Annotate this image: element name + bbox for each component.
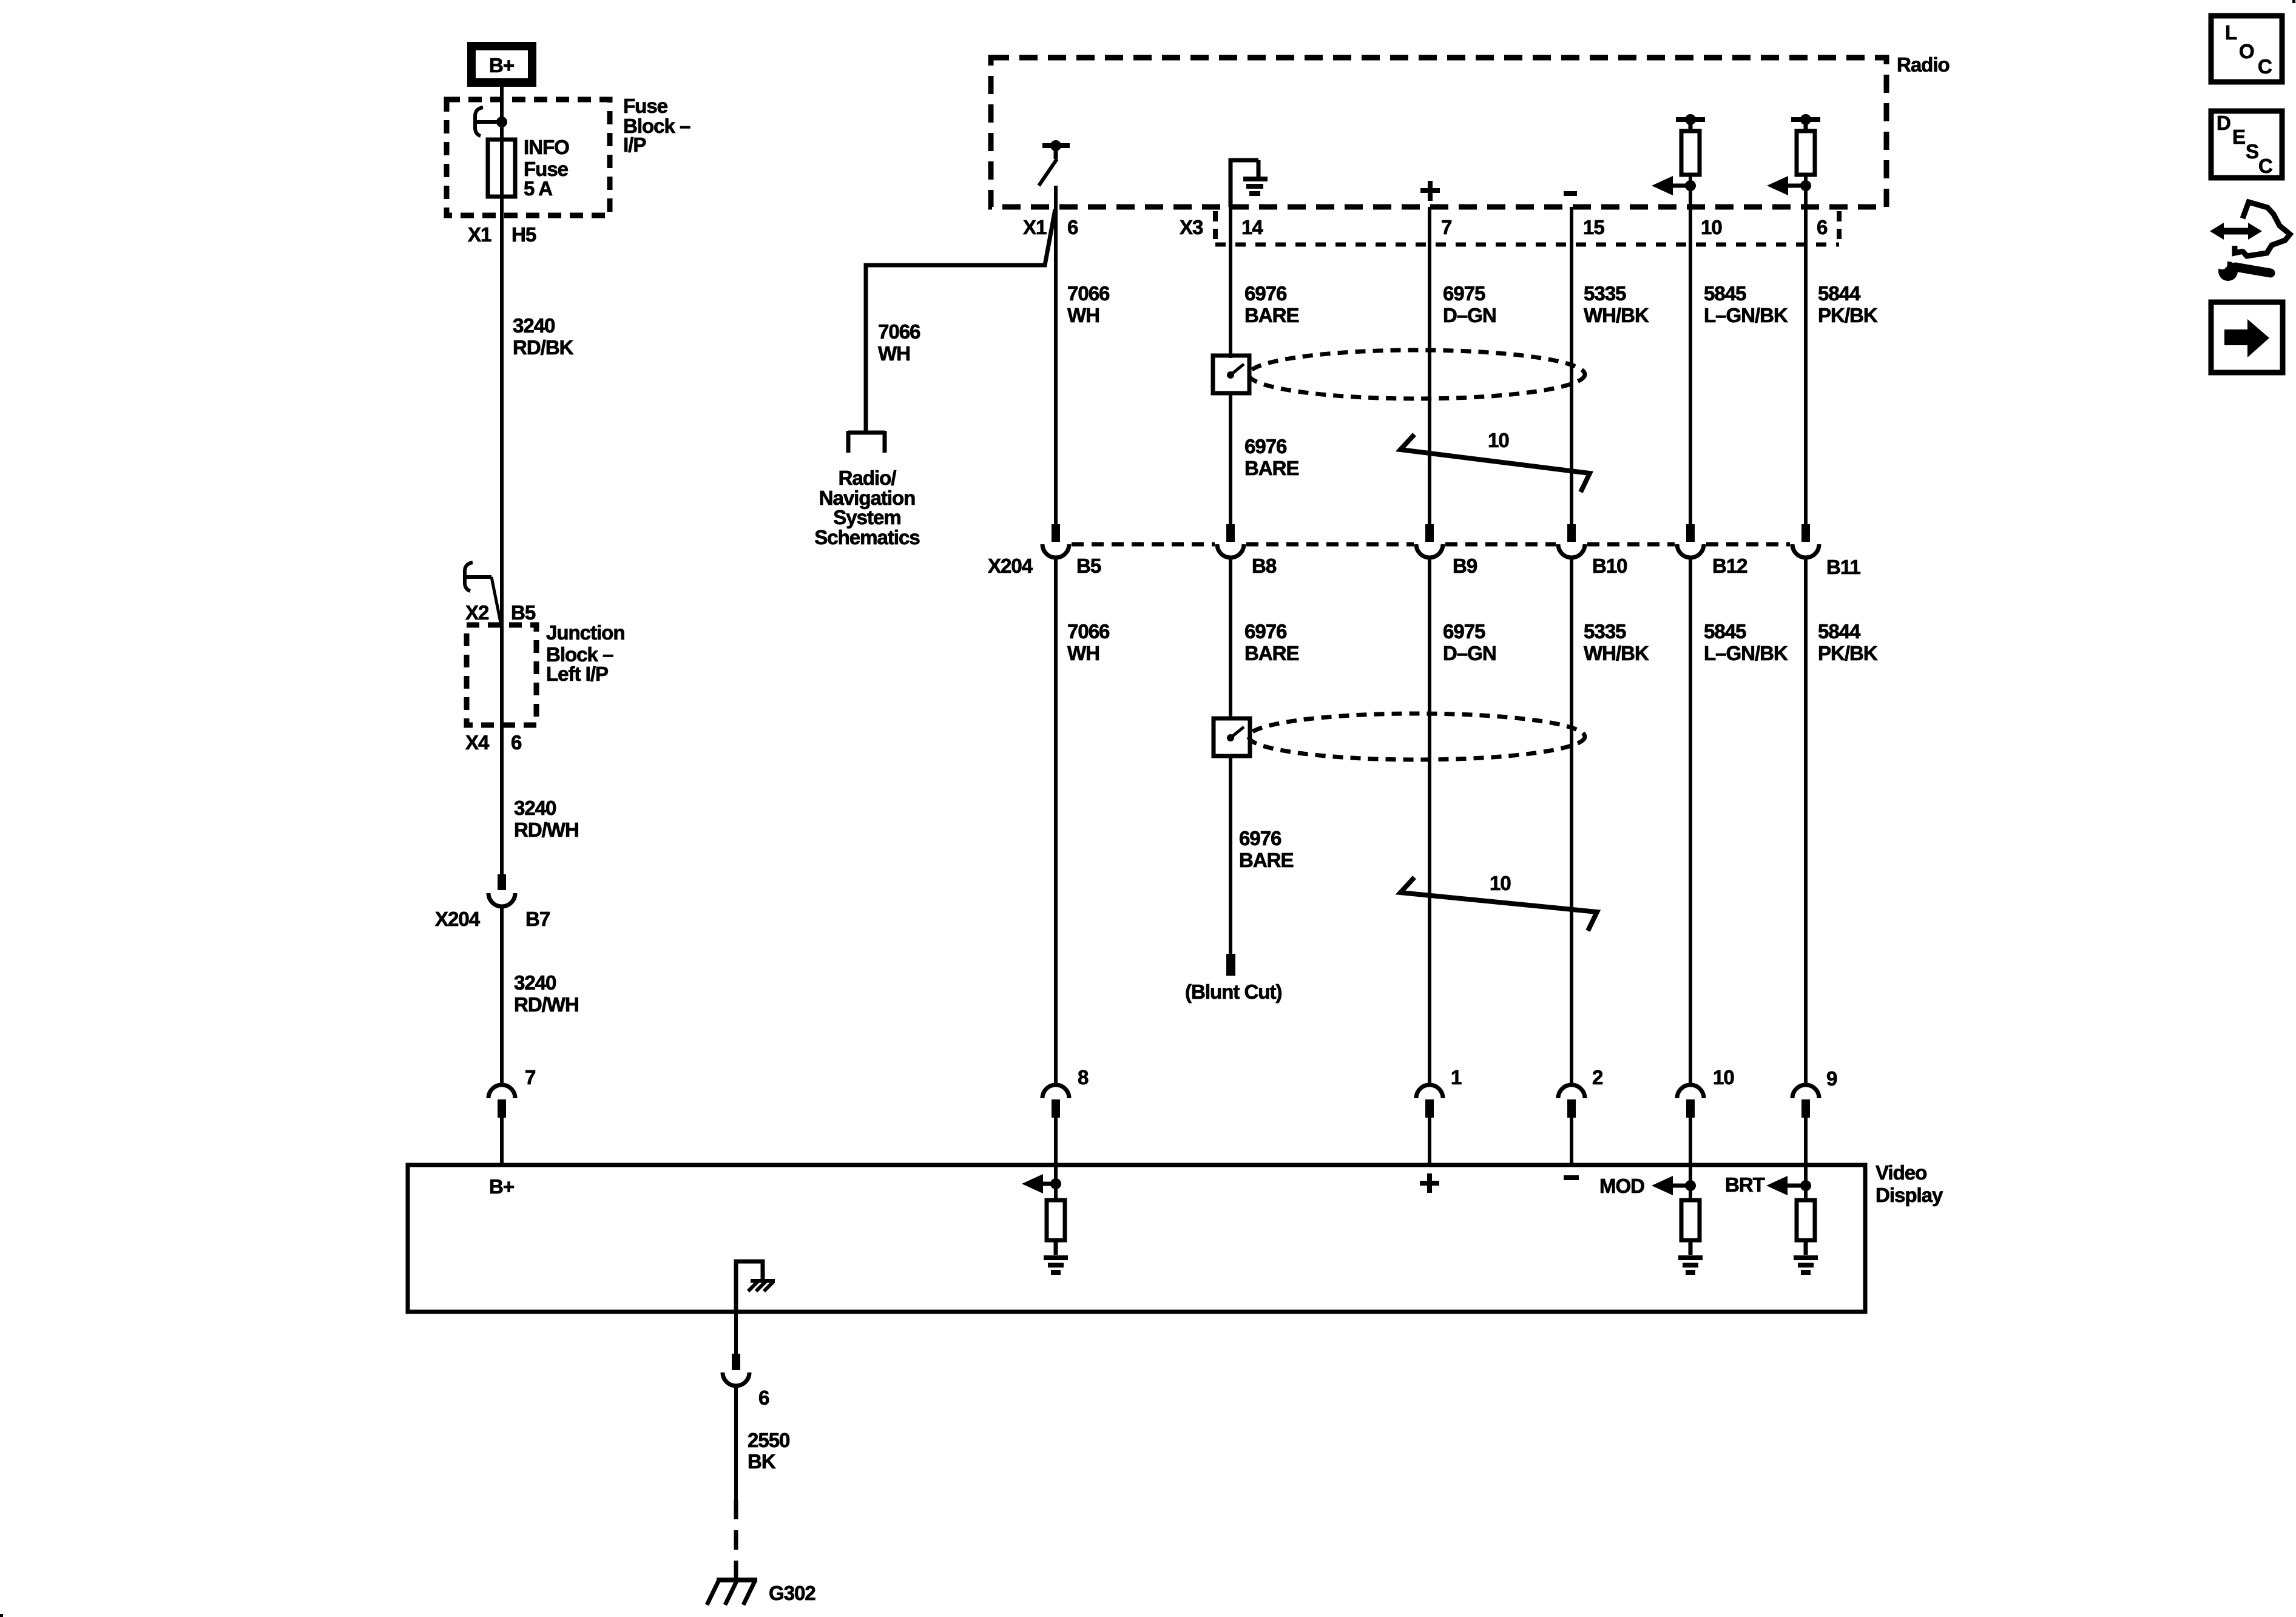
wire through fuse [500, 122, 504, 238]
svg-text:6975: 6975 [1443, 620, 1485, 643]
svg-text:6: 6 [758, 1386, 769, 1409]
svg-text:2: 2 [1592, 1066, 1603, 1089]
svg-text:15: 15 [1583, 216, 1604, 238]
wire col4 into display [1570, 1118, 1573, 1165]
svg-text:B9: B9 [1453, 555, 1477, 577]
wire col3 radio to X204 [1428, 207, 1431, 524]
off-page reference bracket [848, 431, 885, 453]
wire labels row B [1067, 620, 1878, 664]
svg-text:B7: B7 [525, 908, 550, 930]
svg-text:X204: X204 [435, 908, 481, 930]
earth ground col5 [1678, 1258, 1703, 1272]
display minus col4 [1564, 1175, 1579, 1180]
svg-text:Schematics: Schematics [814, 526, 919, 549]
svg-text:X204: X204 [988, 555, 1033, 577]
svg-text:E: E [2232, 126, 2245, 148]
display connector male pin col L [498, 1099, 506, 1118]
wire 5844 PK/BK col6 X204 to display [1804, 557, 1808, 1085]
label 7066 WH elbow [878, 320, 920, 365]
icon DESC box [2211, 111, 2282, 178]
svg-text:B10: B10 [1592, 555, 1627, 577]
svg-text:B12: B12 [1712, 555, 1747, 577]
svg-text:L–GN/BK: L–GN/BK [1704, 642, 1788, 664]
junction block dashed box [467, 625, 536, 725]
connector X204 B7 male pin [498, 874, 506, 890]
junction dot at clip [496, 116, 507, 127]
radio resistor col6 top bar [1791, 114, 1820, 131]
display connector cap col4 [1558, 1085, 1585, 1098]
wire 3240 RD/WH upper [514, 797, 579, 841]
svg-text:(Blunt Cut): (Blunt Cut) [1185, 981, 1281, 1003]
wire 5845 L-GN/BK col5 X204 to display [1689, 557, 1692, 1085]
X204 cup col1 [1042, 544, 1069, 558]
wire 3240 RD/WH lower [500, 905, 504, 1086]
svg-text:D: D [2217, 112, 2230, 134]
svg-text:6976: 6976 [1244, 620, 1287, 643]
X204 cup col3 [1416, 544, 1443, 558]
wire 2550 BK [734, 1385, 738, 1500]
X3 connector strip left bracket [1213, 211, 1218, 245]
svg-text:I/P: I/P [623, 133, 646, 156]
fuse block dashed box [447, 100, 610, 215]
svg-text:5 A: 5 A [524, 177, 552, 200]
wire col5 into display [1689, 1118, 1692, 1200]
wire col3 into display [1428, 1118, 1431, 1165]
wire 7066 WH col1 X204 to display [1054, 557, 1058, 1085]
svg-text:10: 10 [1713, 1066, 1734, 1089]
svg-text:10: 10 [1701, 216, 1722, 238]
ground G302 symbol [707, 1580, 757, 1605]
wire col2 splice to blunt cut [1229, 756, 1232, 954]
svg-text:Video: Video [1876, 1161, 1926, 1184]
wire display to G302 connector [734, 1311, 738, 1354]
display connector row labels [1078, 1066, 1837, 1090]
label MOD with arrow [1599, 1175, 1696, 1197]
display resistor col1 [1047, 1200, 1065, 1240]
wire col4 radio to X204 [1570, 207, 1573, 524]
svg-text:RD/BK: RD/BK [513, 336, 574, 359]
label Fuse Block - I/P [623, 95, 690, 156]
X204 male pin col6 [1801, 524, 1810, 542]
svg-text:5844: 5844 [1818, 620, 1861, 643]
wire col1 into display [1054, 1118, 1058, 1200]
svg-text:O: O [2239, 40, 2254, 62]
svg-text:3240: 3240 [514, 971, 556, 994]
display resistor col1 ground stub [1054, 1240, 1058, 1255]
wire labels row A [1067, 282, 1878, 326]
svg-text:14: 14 [1241, 216, 1263, 238]
wire col1 radio to X204 [1054, 186, 1058, 524]
svg-text:3240: 3240 [513, 314, 555, 337]
svg-text:C: C [2258, 155, 2272, 177]
wire 6976 BARE col2 X204 to splice [1229, 557, 1232, 718]
svg-text:6976: 6976 [1244, 282, 1287, 305]
display connector cap col6 [1792, 1085, 1819, 1098]
earth ground col1 [1044, 1258, 1068, 1272]
svg-text:6975: 6975 [1443, 282, 1485, 305]
svg-text:6: 6 [1817, 216, 1828, 238]
icon wrench with arrows [2210, 202, 2290, 281]
svg-text:B+: B+ [489, 54, 514, 76]
X3 connector strip bottom line [1215, 243, 1839, 247]
B+ power feed box [471, 46, 532, 83]
svg-text:WH: WH [878, 342, 910, 365]
svg-text:B8: B8 [1252, 555, 1277, 577]
svg-text:5845: 5845 [1704, 620, 1746, 643]
display connector cap col5 [1677, 1085, 1704, 1098]
shield ellipse 2 [1249, 714, 1585, 760]
label Video Display [1876, 1161, 1943, 1206]
display male pin col1 [1052, 1099, 1060, 1118]
X204 cup col2 [1217, 544, 1244, 558]
G302 connector female cup [723, 1372, 749, 1386]
display resistor col5 ground stub [1689, 1240, 1693, 1255]
label 6976 BARE mid [1244, 435, 1299, 479]
wire into display col L [500, 1118, 504, 1165]
svg-text:H5: H5 [512, 223, 536, 246]
svg-text:D–GN: D–GN [1443, 304, 1496, 326]
svg-text:6976: 6976 [1244, 435, 1287, 457]
dashed wire to ground [734, 1500, 738, 1581]
svg-text:1: 1 [1451, 1066, 1462, 1089]
svg-text:7066: 7066 [1067, 620, 1110, 643]
svg-text:7: 7 [525, 1066, 535, 1089]
svg-text:BRT: BRT [1725, 1173, 1765, 1196]
svg-text:7066: 7066 [878, 320, 920, 343]
display resistor col5 [1681, 1200, 1700, 1240]
radio dashed box [991, 58, 1886, 207]
svg-text:S: S [2246, 140, 2258, 163]
harness crossing 10 upper [1400, 429, 1590, 492]
svg-text:WH/BK: WH/BK [1584, 304, 1649, 326]
X204 male pin col4 [1567, 524, 1576, 542]
X204 cup col5 [1677, 544, 1704, 558]
svg-text:3240: 3240 [514, 797, 556, 819]
svg-text:5335: 5335 [1584, 282, 1626, 305]
junction block clip symbol [465, 562, 491, 591]
svg-text:9: 9 [1826, 1067, 1837, 1090]
svg-text:G302: G302 [769, 1582, 815, 1604]
svg-text:X4: X4 [465, 731, 490, 754]
svg-text:6976: 6976 [1239, 827, 1281, 849]
display chassis ground elbow [736, 1261, 763, 1311]
radio switch col1 [1039, 140, 1070, 186]
wire through junction block [500, 574, 504, 874]
icon LOC box [2211, 16, 2282, 82]
corner mark top right [2292, 0, 2295, 3]
svg-text:BARE: BARE [1244, 642, 1299, 664]
svg-text:MOD: MOD [1599, 1175, 1644, 1197]
fuse block clip symbol [475, 107, 499, 136]
harness crossing 10 lower [1400, 872, 1597, 931]
label Junction Block - Left I/P [546, 621, 625, 685]
radio output arrow col6 [1767, 176, 1811, 195]
radio resistor col6 [1797, 131, 1815, 175]
display chassis ground symbol [748, 1281, 775, 1291]
svg-text:B5: B5 [511, 601, 536, 624]
radio pin labels [1023, 216, 1828, 238]
corner mark bottom left [0, 1614, 3, 1617]
svg-text:L: L [2225, 21, 2237, 44]
svg-text:X3: X3 [1180, 216, 1203, 238]
display male pin col5 [1686, 1099, 1695, 1118]
X204 row labels [988, 555, 1860, 578]
blunt cut pin [1226, 954, 1235, 976]
G302 connector male pin [732, 1354, 740, 1370]
wire col2 splice to X204 [1229, 393, 1232, 524]
display male pin col6 [1801, 1099, 1810, 1118]
X204 cup col4 [1558, 544, 1585, 558]
svg-text:10: 10 [1490, 872, 1511, 894]
svg-text:C: C [2258, 55, 2272, 78]
svg-text:6: 6 [1067, 216, 1078, 238]
svg-text:B5: B5 [1076, 555, 1101, 577]
svg-text:10: 10 [1488, 429, 1509, 451]
display connector cap col1 [1042, 1085, 1069, 1098]
svg-text:7066: 7066 [1067, 282, 1110, 305]
svg-text:Left I/P: Left I/P [546, 663, 608, 685]
svg-text:X2: X2 [465, 601, 489, 624]
svg-text:5844: 5844 [1818, 282, 1861, 305]
X204 male pin col3 [1425, 524, 1434, 542]
label 6976 BARE lower [1239, 827, 1294, 871]
svg-text:Junction: Junction [546, 621, 625, 644]
display male pin col4 [1567, 1099, 1576, 1118]
svg-text:L–GN/BK: L–GN/BK [1704, 304, 1788, 326]
X204 male pin col1 [1052, 524, 1060, 542]
svg-text:PK/BK: PK/BK [1818, 304, 1878, 326]
X204 male pin col5 [1686, 524, 1695, 542]
wire col6 radio to X204 [1804, 175, 1808, 524]
display connector cap col L [488, 1085, 515, 1098]
earth ground col6 [1794, 1258, 1818, 1272]
display male pin col3 [1425, 1099, 1434, 1118]
radio minus col4 [1564, 191, 1577, 196]
svg-text:Radio/: Radio/ [839, 467, 897, 489]
shield splice square 1 [1213, 356, 1249, 393]
clip diagonal into connector [491, 577, 501, 626]
svg-text:D–GN: D–GN [1443, 642, 1496, 664]
svg-text:B+: B+ [489, 1175, 514, 1198]
label BRT with arrow [1725, 1173, 1811, 1196]
X204 connector row dashed line [1072, 542, 1790, 547]
display resistor col6 [1797, 1200, 1815, 1240]
svg-text:BARE: BARE [1239, 849, 1294, 871]
svg-text:PK/BK: PK/BK [1818, 642, 1878, 664]
svg-text:Display: Display [1876, 1184, 1943, 1206]
svg-text:7: 7 [1441, 216, 1451, 238]
wire 5335 WH/BK col4 X204 to display [1570, 557, 1573, 1085]
display input arrow col1 [1022, 1174, 1061, 1193]
display plus col3 [1420, 1173, 1439, 1193]
X204 cup col6 [1792, 544, 1819, 558]
svg-text:BK: BK [748, 1450, 776, 1473]
svg-text:X1: X1 [1023, 216, 1047, 238]
wire 3240 RD/BK [500, 238, 504, 574]
svg-text:Radio: Radio [1897, 53, 1950, 76]
radio resistor col5 [1681, 131, 1700, 175]
fuse INFO 5A [488, 140, 515, 197]
X3 connector strip right bracket [1837, 211, 1842, 245]
display connector cap col3 [1416, 1085, 1443, 1098]
elbow wire 7066 WH from radio/nav [866, 209, 1055, 431]
svg-text:8: 8 [1078, 1066, 1089, 1089]
wire 6975 D-GN col3 X204 to display [1428, 557, 1431, 1085]
svg-text:2550: 2550 [748, 1429, 789, 1451]
radio plus col3 [1420, 181, 1440, 201]
wire B+ to fuse block [500, 87, 504, 122]
svg-text:BARE: BARE [1244, 457, 1299, 479]
label Radio/Navigation System Schematics [814, 467, 919, 549]
svg-text:System: System [833, 506, 900, 528]
radio output arrow col5 [1652, 176, 1696, 195]
svg-text:WH: WH [1067, 304, 1099, 326]
icon arrow box [2211, 302, 2283, 373]
svg-text:5845: 5845 [1704, 282, 1746, 305]
svg-text:B11: B11 [1826, 556, 1860, 578]
svg-text:WH/BK: WH/BK [1584, 642, 1649, 664]
shield splice square 2 [1214, 718, 1250, 756]
radio resistor col5 top bar [1676, 114, 1705, 131]
svg-text:6: 6 [511, 731, 522, 754]
radio ground col2 [1231, 160, 1268, 207]
wire col5 radio to X204 [1689, 175, 1692, 524]
svg-text:RD/WH: RD/WH [514, 993, 579, 1016]
video display box [408, 1165, 1865, 1312]
svg-text:Fuse: Fuse [623, 95, 668, 117]
svg-text:5335: 5335 [1584, 620, 1626, 643]
shield ellipse 1 [1249, 350, 1585, 399]
display resistor col6 ground stub [1804, 1240, 1808, 1255]
svg-text:INFO: INFO [524, 136, 569, 158]
wire col2 radio to splice [1229, 207, 1232, 358]
svg-text:RD/WH: RD/WH [514, 819, 579, 841]
svg-text:BARE: BARE [1244, 304, 1299, 326]
X204 male pin col2 [1226, 524, 1235, 542]
svg-text:WH: WH [1067, 642, 1099, 664]
wire col6 into display [1804, 1118, 1808, 1200]
connector X204 B7 female cup [488, 893, 515, 906]
svg-text:X1: X1 [468, 223, 491, 246]
